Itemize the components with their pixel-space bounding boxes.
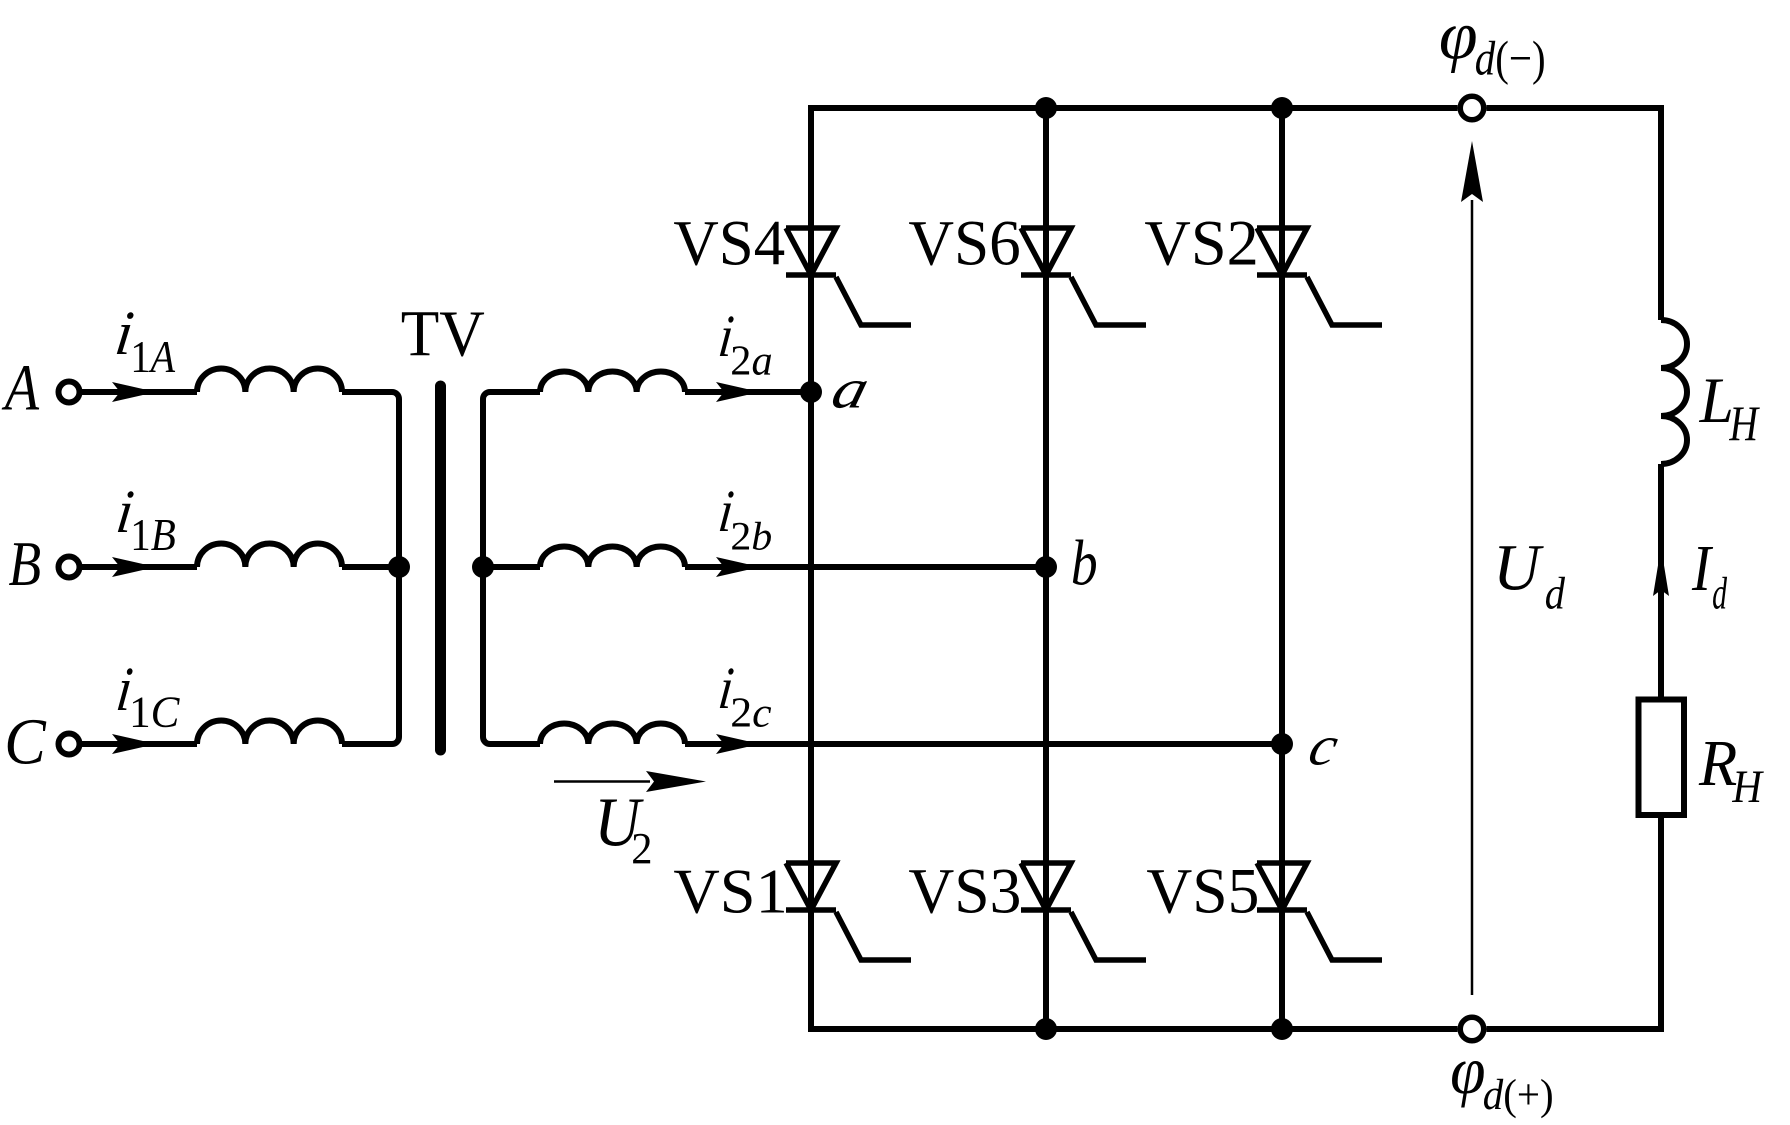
svg-text:φ: φ [1450, 1033, 1485, 1108]
svg-text:VS2: VS2 [1144, 208, 1258, 279]
svg-text:VS6: VS6 [908, 207, 1020, 279]
svg-text:2a: 2a [730, 338, 772, 385]
svg-text:2c: 2c [730, 690, 771, 736]
svg-text:TV: TV [401, 298, 485, 370]
svg-text:L: L [1699, 365, 1734, 437]
svg-text:R: R [1698, 726, 1737, 799]
svg-text:U: U [1493, 532, 1544, 604]
svg-text:H: H [1729, 396, 1761, 451]
svg-text:B: B [8, 529, 41, 599]
svg-text:2b: 2b [730, 513, 772, 558]
svg-text:1C: 1C [129, 687, 180, 737]
svg-text:d(+): d(+) [1483, 1071, 1554, 1119]
svg-text:H: H [1731, 762, 1764, 813]
svg-text:A: A [1, 351, 39, 424]
svg-text:2: 2 [631, 824, 652, 873]
svg-text:VS1: VS1 [673, 856, 787, 926]
svg-text:φ: φ [1439, 0, 1478, 74]
svg-text:VS3: VS3 [908, 855, 1021, 926]
svg-text:d: d [1545, 569, 1566, 619]
svg-text:VS4: VS4 [673, 207, 785, 279]
svg-text:d: d [1712, 569, 1727, 619]
svg-text:1A: 1A [130, 333, 175, 383]
svg-text:d(−): d(−) [1475, 31, 1546, 85]
svg-text:C: C [4, 705, 47, 778]
svg-text:I: I [1691, 532, 1713, 605]
svg-text:1B: 1B [130, 510, 176, 560]
svg-text:VS5: VS5 [1146, 855, 1259, 926]
svg-text:b: b [1071, 527, 1098, 599]
